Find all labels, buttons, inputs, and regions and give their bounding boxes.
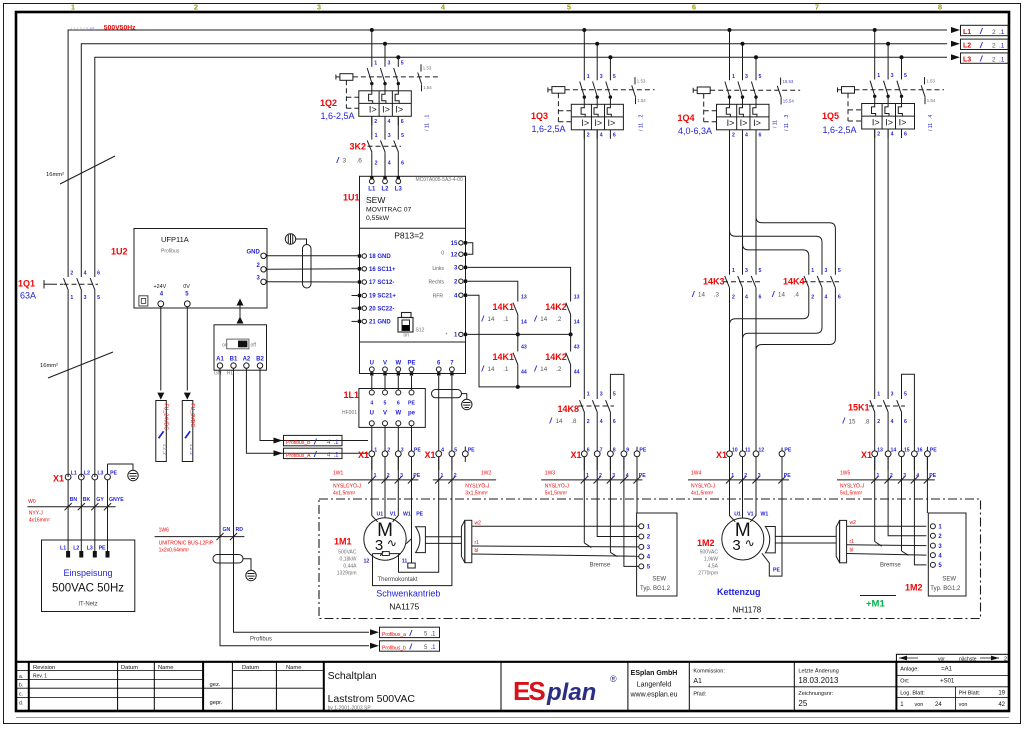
svg-text:r1: r1	[475, 540, 480, 546]
svg-text:X1: X1	[53, 474, 64, 484]
svg-text:W1: W1	[403, 512, 411, 518]
svg-text:3: 3	[891, 392, 894, 398]
svg-text:1329rpm: 1329rpm	[337, 571, 357, 577]
svg-text:15: 15	[904, 448, 910, 454]
svg-text:1: 1	[732, 74, 735, 80]
svg-text:5: 5	[384, 400, 387, 406]
svg-text:1,6-2,5A: 1,6-2,5A	[532, 124, 566, 134]
svg-text:L1: L1	[60, 546, 66, 552]
svg-text:5: 5	[401, 60, 404, 66]
contactor 14K8 contacts	[549, 130, 624, 451]
wire from 1U2 pin 3 to 1U1 pin 17	[266, 281, 358, 283]
svg-text:5: 5	[97, 295, 100, 301]
svg-text:Rev. 1: Rev. 1	[33, 674, 47, 680]
svg-text:PE: PE	[929, 473, 936, 479]
svg-text:4x16mm²: 4x16mm²	[29, 518, 50, 524]
svg-text:42: 42	[998, 702, 1005, 708]
svg-text:1Q3: 1Q3	[531, 111, 548, 121]
svg-text:GY: GY	[96, 497, 104, 503]
profibus interface 1U2 UFP11A box	[111, 229, 267, 309]
svg-text:I>: I>	[727, 118, 735, 128]
svg-text:13: 13	[574, 295, 580, 301]
svg-text:1: 1	[374, 473, 377, 479]
svg-text:RFR: RFR	[433, 294, 444, 300]
svg-text:14K3: 14K3	[703, 277, 725, 287]
svg-text:2: 2	[992, 43, 996, 50]
svg-text:PE: PE	[407, 361, 415, 367]
1U1 right control terminals	[428, 241, 472, 339]
svg-text:X1: X1	[358, 450, 369, 460]
svg-text:1: 1	[877, 392, 880, 398]
title block company	[629, 670, 677, 699]
svg-text:0,18kW: 0,18kW	[340, 557, 357, 563]
svg-text:1W4: 1W4	[691, 470, 702, 476]
svg-text:14: 14	[488, 316, 495, 323]
svg-text:I>: I>	[885, 117, 893, 127]
wire 0V down from 1U2	[186, 307, 188, 391]
svg-text:I>: I>	[608, 118, 616, 128]
svg-text:Datum: Datum	[121, 665, 138, 671]
svg-text:4: 4	[891, 419, 894, 425]
svg-text:44: 44	[574, 370, 580, 376]
svg-text:U: U	[370, 411, 374, 417]
svg-text:15K1: 15K1	[848, 403, 870, 413]
svg-text:Einspeisung: Einspeisung	[63, 568, 112, 578]
wire bracket terminal 15 to 12	[467, 243, 473, 254]
wire B2 to Profibus_B reference	[260, 368, 368, 440]
svg-text:A1: A1	[693, 678, 702, 685]
svg-text:I>: I>	[753, 118, 761, 128]
wire crossover output 14K4 pole2	[743, 288, 823, 340]
svg-text:Bremse: Bremse	[880, 563, 901, 569]
svg-text:500V50Hz: 500V50Hz	[104, 24, 136, 31]
svg-text:15: 15	[451, 241, 458, 247]
svg-text:2: 2	[194, 3, 198, 12]
svg-text:2: 2	[587, 132, 590, 138]
svg-text:L2: L2	[963, 43, 971, 50]
cable 1W6 UNITRONIC marker	[155, 527, 245, 554]
svg-text:1,9kW: 1,9kW	[704, 557, 718, 563]
contactor 14K3 contacts	[691, 268, 762, 451]
svg-text:gepr.: gepr.	[210, 700, 223, 706]
svg-text:5: 5	[613, 74, 616, 80]
svg-text:3: 3	[825, 268, 828, 274]
svg-text:.4: .4	[794, 292, 800, 299]
svg-text:1.54: 1.54	[423, 85, 432, 90]
wire X1-PE down to rectifier box	[636, 457, 638, 513]
profibus shield earth connection	[243, 559, 251, 571]
svg-text:14: 14	[574, 320, 580, 326]
wire +24V down from 1U2	[160, 307, 162, 391]
svg-text:.1: .1	[999, 56, 1005, 63]
svg-text:UNITRONIC BUS-L2FIP: UNITRONIC BUS-L2FIP	[159, 541, 214, 547]
svg-text:NYSLCYÖ-J: NYSLCYÖ-J	[333, 482, 362, 489]
svg-text:I>: I>	[369, 105, 377, 115]
relay contact 14K1 13-14	[513, 303, 518, 315]
svg-text:4: 4	[916, 473, 919, 479]
svg-text:63A: 63A	[20, 291, 36, 301]
svg-text:/ 11: / 11	[773, 120, 779, 128]
svg-text:RD: RD	[236, 527, 244, 533]
svg-text:12: 12	[758, 448, 764, 454]
terminator terminals A1 B1 A2 B2	[214, 357, 264, 377]
wire X1-6 down with switch contact onto r1	[583, 457, 585, 543]
svg-text:5: 5	[759, 268, 762, 274]
svg-text:6: 6	[838, 295, 841, 301]
svg-text:X1: X1	[716, 450, 727, 460]
svg-text:4: 4	[825, 295, 828, 301]
sheet reference FU_0VDC	[184, 393, 191, 400]
svg-text:2: 2	[387, 448, 390, 454]
svg-text:GND: GND	[246, 250, 260, 256]
svg-text:L3: L3	[97, 471, 103, 477]
svg-text:Profibus_B: Profibus_B	[286, 440, 311, 446]
svg-text:U1: U1	[734, 512, 741, 518]
svg-text:6: 6	[401, 161, 404, 167]
svg-text:FU_0VDC: FU_0VDC	[189, 404, 195, 428]
brake wire bl motor2	[847, 554, 927, 556]
svg-text:4: 4	[388, 161, 391, 167]
svg-text:6: 6	[613, 132, 616, 138]
svg-text:.1: .1	[334, 440, 340, 446]
svg-text:0V: 0V	[183, 284, 190, 290]
svg-text:c.: c.	[19, 692, 23, 698]
svg-text:15.53: 15.53	[782, 79, 794, 84]
wire PE to earth	[107, 480, 109, 553]
wire A1 profibus down	[220, 368, 369, 646]
svg-text:NYSLYÖ-J: NYSLYÖ-J	[840, 482, 865, 489]
svg-text:bl: bl	[475, 548, 479, 554]
svg-text:10: 10	[732, 448, 738, 454]
svg-text:1x2x0,64mm²: 1x2x0,64mm²	[159, 548, 190, 554]
svg-text:1: 1	[374, 448, 377, 454]
svg-text:1W6: 1W6	[159, 528, 170, 534]
svg-text:Letzte Änderung: Letzte Änderung	[798, 668, 838, 675]
svg-text:3: 3	[891, 73, 894, 79]
cable 1W5 NYSLYO-J 5x1,5	[837, 470, 937, 496]
auxiliary contact of 1Q4	[780, 78, 782, 85]
svg-text:Schaltplan: Schaltplan	[328, 670, 377, 682]
svg-text:BK: BK	[83, 497, 91, 503]
motor 1M2 supply wires into motor	[730, 457, 769, 522]
svg-text:Kommission:: Kommission:	[693, 669, 725, 675]
svg-text:1.53: 1.53	[926, 79, 935, 84]
contactor 14K4 contacts	[771, 268, 841, 301]
svg-text:9: 9	[626, 448, 629, 454]
svg-text:GN: GN	[214, 371, 222, 377]
svg-text:/ 11 .4: / 11 .4	[928, 114, 934, 131]
svg-text:U: U	[370, 361, 374, 367]
svg-text:18.03.2013: 18.03.2013	[798, 676, 839, 685]
svg-text:1: 1	[374, 60, 377, 66]
earth symbol at infeed	[128, 470, 138, 480]
svg-text:6: 6	[97, 271, 100, 277]
svg-text:14K1: 14K1	[493, 302, 515, 312]
svg-text:3K2: 3K2	[350, 141, 367, 151]
svg-text:14K2: 14K2	[545, 302, 567, 312]
svg-text:von: von	[959, 702, 968, 708]
svg-text:Profibus_a: Profibus_a	[382, 632, 406, 638]
svg-text:4,0-6,3A: 4,0-6,3A	[678, 126, 712, 136]
svg-text:Name: Name	[158, 665, 173, 671]
brake wire r1 to rectifier terminal 3	[472, 545, 639, 548]
wires 1U1 terminals 6 7 down	[438, 376, 440, 451]
svg-text:1Q1: 1Q1	[18, 279, 35, 289]
filter 1L1 HF001 box	[342, 389, 425, 451]
wire bus L3	[95, 57, 947, 277]
svg-text:4x1,5mm²: 4x1,5mm²	[691, 490, 714, 496]
svg-text:FU_24VDC: FU_24VDC	[162, 404, 168, 431]
svg-text:1: 1	[70, 295, 73, 301]
svg-text:.1: .1	[503, 366, 509, 373]
svg-text:0,44A: 0,44A	[343, 564, 357, 570]
svg-text:Laststrom 500VAC: Laststrom 500VAC	[328, 693, 416, 705]
svg-text:3: 3	[388, 60, 391, 66]
svg-text:5: 5	[904, 392, 907, 398]
svg-text:®: ®	[610, 674, 617, 684]
cable W0 NYY-J marker	[28, 499, 116, 524]
svg-text:on: on	[404, 333, 410, 339]
svg-text:4: 4	[370, 400, 373, 406]
svg-text:P813=2: P813=2	[394, 231, 424, 241]
svg-text:2770rpm: 2770rpm	[698, 571, 718, 577]
svg-text:U1: U1	[377, 512, 384, 518]
svg-text:*: *	[446, 333, 448, 339]
thermal contact in motor 1M1	[373, 553, 400, 555]
svg-text:GNYE: GNYE	[109, 497, 124, 503]
terminal strip X1 L1 L2 L3 PE	[53, 471, 118, 484]
svg-text:+S01: +S01	[940, 679, 955, 685]
svg-text:w2: w2	[475, 520, 482, 526]
infeed source box Einspeisung	[42, 480, 135, 612]
svg-text:43: 43	[574, 345, 580, 351]
svg-text:2: 2	[732, 295, 735, 301]
1U2 right terminals GND 2 3	[246, 250, 266, 285]
svg-text:.2: .2	[163, 451, 168, 455]
circuit breaker 1Q2	[320, 28, 441, 131]
wire X1-PE down to rectifier box motor2	[926, 457, 928, 513]
svg-text:UFP11A: UFP11A	[161, 235, 189, 244]
svg-text:Datum: Datum	[242, 665, 259, 671]
svg-text:Profibus: Profibus	[250, 637, 272, 643]
svg-text:I>: I>	[899, 117, 907, 127]
svg-text:Bremse: Bremse	[590, 563, 611, 569]
svg-text:L1: L1	[963, 29, 971, 36]
ESplan logo	[513, 674, 617, 706]
svg-text:I>: I>	[581, 118, 589, 128]
svg-text:3: 3	[758, 473, 761, 479]
svg-text:A1: A1	[216, 357, 224, 363]
svg-text:19 SC21+: 19 SC21+	[369, 294, 396, 300]
auxiliary contact of 1Q3	[634, 77, 636, 84]
svg-text:3: 3	[600, 74, 603, 80]
svg-text:nächste: nächste	[959, 656, 977, 662]
profibus cable shield oval	[213, 555, 243, 564]
svg-text:1: 1	[587, 74, 590, 80]
svg-text:6: 6	[904, 419, 907, 425]
svg-text:W0: W0	[28, 499, 36, 505]
svg-text:.8: .8	[571, 418, 577, 425]
svg-text:PE: PE	[408, 400, 415, 406]
motor 1M2 circle	[722, 518, 764, 560]
svg-text:1: 1	[811, 268, 814, 274]
wire crossover output 14K4 pole1	[730, 288, 809, 325]
wire U-loop feeding X1-16	[902, 374, 915, 451]
svg-text:Schwenkantrieb: Schwenkantrieb	[376, 589, 440, 599]
svg-text:1: 1	[586, 473, 589, 479]
svg-text:I>: I>	[395, 105, 403, 115]
cable 1W2 NYSLYO-J 3x1,5	[433, 470, 496, 496]
svg-text:vor: vor	[938, 656, 945, 662]
svg-text:V1: V1	[390, 512, 396, 518]
svg-text:1M2: 1M2	[905, 583, 923, 593]
svg-text:Profibus_b: Profibus_b	[382, 645, 406, 651]
svg-text:W: W	[395, 411, 401, 417]
svg-text:1: 1	[441, 473, 444, 479]
svg-text:.1: .1	[431, 645, 437, 651]
svg-text:25: 25	[798, 699, 807, 708]
brake wire w2 to rectifier terminal 1	[472, 525, 639, 527]
svg-text:+M1: +M1	[866, 599, 885, 610]
svg-text:14K2: 14K2	[545, 352, 567, 362]
wire GND from 1U2 to 1U1 pin 18	[266, 255, 358, 257]
frequency inverter 1U1 SEW MOVITRAC box	[343, 176, 466, 373]
svg-text:SEW: SEW	[942, 577, 956, 583]
svg-text:von: von	[915, 702, 924, 708]
svg-text:21 GND: 21 GND	[369, 320, 391, 326]
svg-text:=A1: =A1	[941, 667, 953, 673]
thermo contact wire 12	[373, 457, 452, 586]
svg-text:1.53: 1.53	[423, 66, 432, 71]
svg-text:16mm²: 16mm²	[40, 363, 58, 369]
svg-text:1U2: 1U2	[111, 247, 128, 257]
svg-text:PE: PE	[413, 473, 420, 479]
wire bus L2	[81, 44, 947, 277]
svg-text:L2: L2	[381, 187, 389, 193]
auxiliary contact of 1Q5	[924, 77, 926, 84]
svg-text:.3: .3	[714, 292, 720, 299]
shield oval on thermo wires	[432, 390, 462, 398]
svg-text:13: 13	[877, 448, 883, 454]
svg-text:5: 5	[567, 3, 571, 12]
svg-text:3: 3	[732, 537, 740, 554]
svg-text:1,6-2,5A: 1,6-2,5A	[823, 125, 857, 135]
svg-text:4: 4	[626, 473, 629, 479]
svg-text:4: 4	[891, 132, 894, 138]
svg-text:L3: L3	[87, 546, 93, 552]
svg-text:3: 3	[84, 295, 87, 301]
svg-text:GN: GN	[223, 527, 231, 533]
svg-text:PH Blatt:: PH Blatt:	[959, 691, 981, 697]
svg-text:4,5A: 4,5A	[708, 564, 719, 570]
svg-text:2: 2	[375, 161, 378, 167]
wire crossover feed 14K4 pole2	[743, 244, 809, 275]
svg-text:X1: X1	[861, 450, 872, 460]
svg-text:3: 3	[400, 473, 403, 479]
svg-text:2: 2	[992, 29, 996, 36]
svg-text:1: 1	[877, 473, 880, 479]
svg-text:b.: b.	[19, 683, 23, 689]
svg-text:2: 2	[599, 473, 602, 479]
svg-text:3: 3	[745, 74, 748, 80]
svg-text:500VAC: 500VAC	[700, 550, 719, 556]
svg-text:.1: .1	[999, 29, 1005, 36]
contactor 15K1 contacts	[842, 374, 915, 451]
svg-text:4: 4	[388, 119, 391, 125]
1U1 bottom terminals U V W PE 6 7	[369, 361, 454, 376]
svg-text:1M1: 1M1	[334, 537, 352, 547]
brake symbol motor 1M1	[416, 527, 426, 553]
wire crossover feed 14K4 pole3	[756, 217, 835, 275]
relay contact 14K2 43-44	[570, 334, 572, 351]
svg-text:PE: PE	[468, 448, 475, 454]
svg-text:16: 16	[917, 448, 923, 454]
svg-text:.1: .1	[334, 453, 340, 459]
svg-text:1W1: 1W1	[333, 470, 344, 476]
relay contact 14K2 13-14	[566, 303, 571, 315]
svg-text:I>: I>	[740, 118, 748, 128]
svg-text:6: 6	[613, 419, 616, 425]
brake symbol motor 1M2	[765, 527, 775, 553]
svg-text:1L1: 1L1	[344, 390, 360, 400]
wire 1U1 pin1 middle rail	[467, 333, 570, 335]
svg-text:off: off	[251, 343, 257, 349]
wire PE into motor 1M2	[762, 457, 782, 576]
svg-text:5: 5	[613, 392, 616, 398]
svg-text:.2: .2	[189, 451, 194, 455]
svg-text:5x1,5mm²: 5x1,5mm²	[840, 490, 863, 496]
1U1 left control terminals	[352, 254, 397, 326]
circuit breaker 1Q3	[531, 28, 655, 139]
svg-text:500VAC 50Hz: 500VAC 50Hz	[52, 583, 124, 595]
svg-text:X1: X1	[425, 450, 436, 460]
svg-text:1M2: 1M2	[697, 538, 715, 548]
svg-text:bl: bl	[850, 548, 854, 554]
terminal strip X1 4 5 PE (thermo)	[425, 447, 476, 463]
svg-text:1W3: 1W3	[545, 470, 556, 476]
svg-text:on: on	[222, 343, 228, 349]
sheet reference Profibus_a	[370, 629, 379, 635]
wire X1-13 down with switch contact onto r1 motor2	[874, 457, 876, 542]
svg-text:gez.: gez.	[210, 682, 221, 688]
svg-text:NYSLYÖ-J: NYSLYÖ-J	[465, 482, 490, 489]
shaft to brake connector 1M2	[775, 535, 836, 537]
svg-text:4x1,5mm²: 4x1,5mm²	[333, 490, 356, 496]
terminal strip X1 13 14 15 16 PE (motor2 brake)	[861, 447, 937, 460]
svg-text:1W5: 1W5	[840, 470, 851, 476]
svg-text:1.54: 1.54	[637, 98, 646, 103]
terminal strip X1 6 7 8 9 PE (motor1 brake)	[571, 447, 647, 460]
wire 1U1 pin4 RFR down to contact row2 bottom rail	[467, 295, 570, 387]
svg-text:5: 5	[904, 73, 907, 79]
wire X1-15 down with switch contact onto bl motor2	[901, 457, 903, 551]
wire B1 profibus down	[234, 368, 370, 632]
svg-text:14K1: 14K1	[493, 352, 515, 362]
svg-text:18 GND: 18 GND	[369, 254, 391, 260]
svg-text:5x1,5mm²: 5x1,5mm²	[545, 490, 568, 496]
svg-text:6: 6	[904, 132, 907, 138]
sheet reference FU_24VDC	[157, 393, 164, 400]
main switch 1Q1	[18, 271, 100, 478]
svg-text:PE: PE	[773, 568, 780, 574]
svg-text:1U1: 1U1	[343, 193, 360, 203]
wire 1U1 pin2 Rechts to 14K1	[467, 281, 518, 301]
svg-text:12: 12	[451, 252, 458, 258]
svg-text:L3: L3	[963, 56, 971, 63]
svg-text:L2: L2	[84, 471, 90, 477]
svg-text:2: 2	[890, 473, 893, 479]
svg-text:.2: .2	[556, 316, 562, 323]
